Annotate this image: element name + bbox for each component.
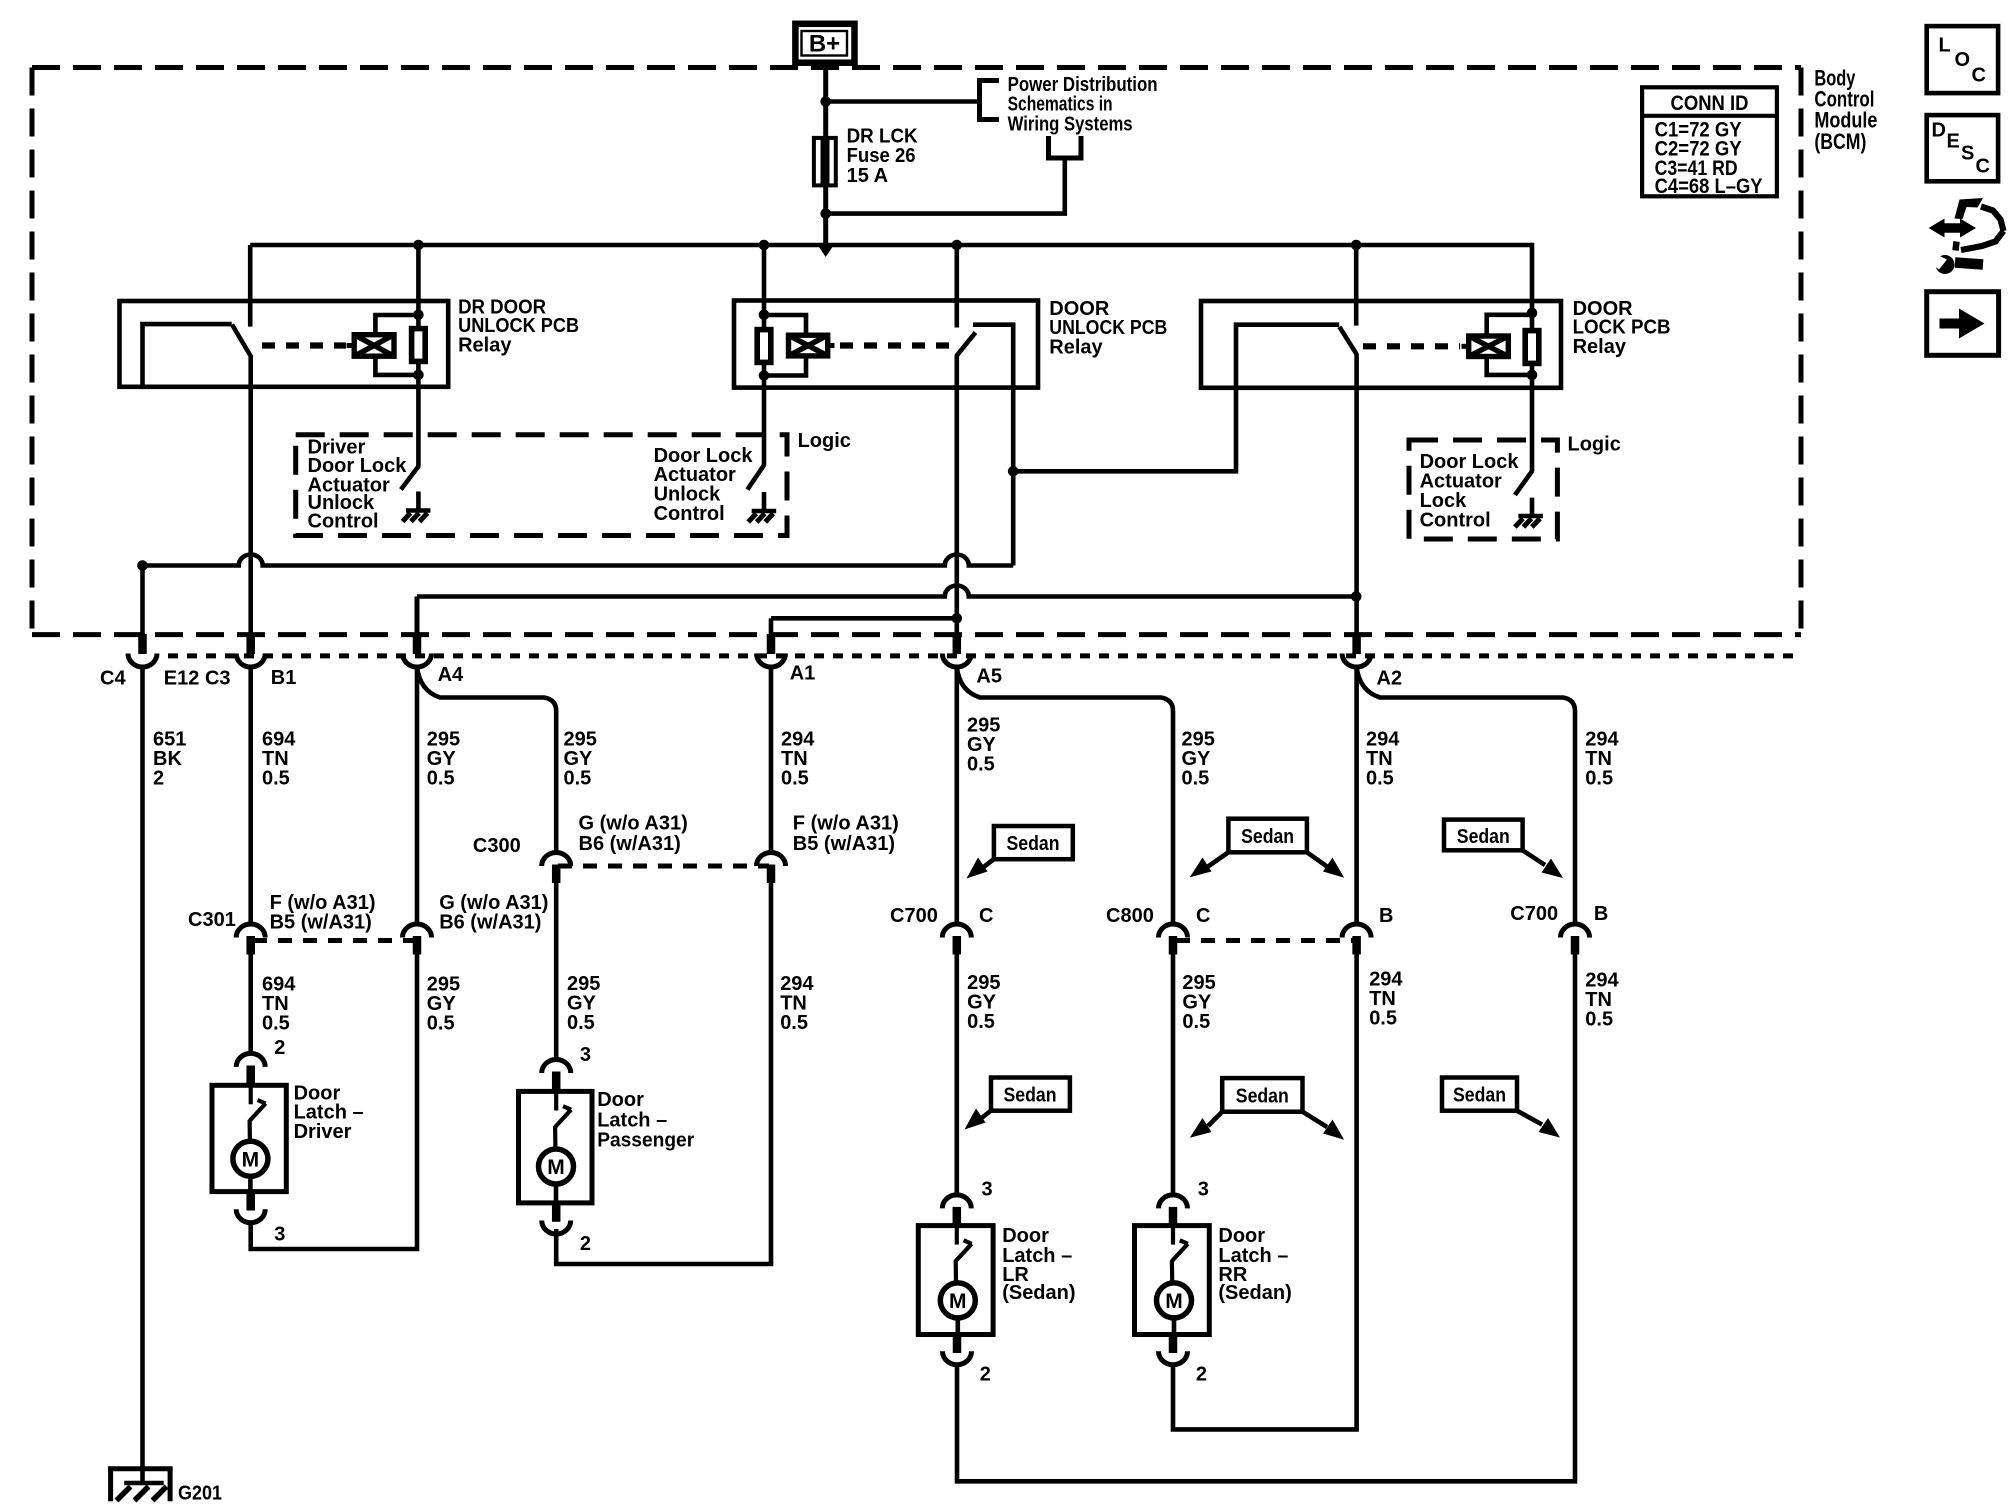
switch blade K3: [1339, 327, 1356, 354]
wire NC hook K3: [1236, 325, 1339, 388]
svg-text:B: B: [1379, 905, 1393, 927]
svg-text:C: C: [1196, 905, 1210, 927]
dashed link C301: [253, 938, 415, 943]
svg-text:Door: Door: [1002, 1225, 1049, 1247]
armature dashed link K2: [840, 342, 950, 348]
label 294 TN 0.5 (lower A1): [780, 973, 814, 1034]
coil K1 (box with X): [347, 335, 394, 357]
connector C301 (B1 side): [236, 924, 265, 955]
svg-text:2: 2: [1196, 1364, 1207, 1386]
svg-text:Sedan: Sedan: [1457, 826, 1510, 848]
node bus-K2 contact: [952, 240, 963, 251]
svg-text:0.5: 0.5: [1369, 1008, 1397, 1030]
wire top B+ bus: [250, 243, 1532, 248]
wire 295 GY from A5 straight: [954, 667, 959, 925]
svg-text:Sedan: Sedan: [1236, 1085, 1289, 1107]
svg-text:M: M: [949, 1290, 967, 1313]
latch box driver: [212, 1085, 286, 1191]
switch inside driver latch: [250, 1085, 266, 1141]
svg-text:Control: Control: [1420, 510, 1491, 532]
wire 694 TN from B1: [248, 667, 253, 925]
svg-text:G201: G201: [178, 1483, 222, 1504]
connector pin 2 LR latch: [943, 1336, 972, 1365]
svg-text:B6 (w/A31): B6 (w/A31): [579, 833, 681, 855]
wire A2 branch to C700-B: [1357, 667, 1575, 925]
svg-text:A2: A2: [1377, 668, 1403, 690]
wire NO contact hook K2: [973, 325, 1013, 388]
svg-text:M: M: [242, 1149, 260, 1172]
svg-text:M: M: [1165, 1290, 1183, 1313]
label Door Latch LR (Sedan): [1002, 1225, 1075, 1304]
svg-text:0.5: 0.5: [780, 1012, 808, 1034]
label 651 BK 2: [153, 728, 186, 789]
label 295 GY 0.5 (RR): [1182, 972, 1215, 1033]
label 694 TN 0.5 (lower): [262, 974, 296, 1035]
wire A4 to A2 link with hop over A5: [417, 586, 1356, 597]
resistor K1: [412, 329, 426, 362]
svg-text:B5 (w/A31): B5 (w/A31): [793, 833, 895, 855]
wire common below blade K3: [1354, 354, 1359, 388]
svg-text:E: E: [1947, 131, 1960, 153]
label fuse: [847, 126, 919, 187]
wire fixed contact from bus K3: [1354, 245, 1359, 326]
BCM dashed border box: [32, 68, 1801, 635]
svg-text:B1: B1: [271, 667, 297, 689]
svg-text:Sedan: Sedan: [1453, 1085, 1506, 1107]
svg-text:Sedan: Sedan: [1007, 833, 1060, 855]
motor M RR: [1157, 1283, 1192, 1318]
motor M passenger: [539, 1149, 574, 1184]
B+ battery box: [795, 24, 854, 63]
connector pin 3 LR latch: [942, 1195, 971, 1225]
wire coil brackets K3: [1487, 315, 1532, 336]
svg-text:0.5: 0.5: [1585, 1009, 1613, 1031]
wire 294 TN from A1: [769, 667, 774, 853]
connector pin 3 driver latch: [236, 1193, 265, 1223]
label 294 TN 0.5 (A1): [781, 728, 815, 789]
label 294 TN 0.5 (C700-B branch): [1585, 728, 1619, 789]
svg-text:2: 2: [274, 1037, 285, 1059]
wire B+ feed down to bus: [823, 63, 828, 245]
wire motor to box bottom: [955, 1318, 960, 1335]
svg-text:DR LCK: DR LCK: [847, 126, 919, 148]
icon LOC box: [1927, 26, 1998, 93]
svg-text:B: B: [1594, 903, 1608, 925]
label 295 GY 0.5 (lower A4): [427, 974, 460, 1035]
label door lock actuator lock control: [1420, 451, 1520, 532]
svg-text:C700: C700: [1510, 903, 1558, 925]
ground logic switch 3: [1515, 498, 1543, 527]
connector A2 pin: [1342, 388, 1371, 667]
node junction C4 bus: [137, 560, 148, 571]
connector pin 2 passenger latch: [542, 1204, 571, 1234]
label 295 GY 0.5 (A4): [427, 728, 460, 789]
svg-text:B5 (w/A31): B5 (w/A31): [270, 912, 372, 934]
svg-text:L: L: [1939, 35, 1951, 57]
wire motor to box bottom: [1172, 1318, 1177, 1335]
wire branch to power distribution reference: [826, 99, 980, 104]
armature dashed link K1: [262, 342, 346, 348]
label G (w/o A31) B6 (w/A31): [439, 892, 548, 933]
svg-text:Door: Door: [1218, 1225, 1265, 1247]
fuse F26 DR LCK: [814, 138, 836, 186]
label DOOR LOCK PCB Relay: [1573, 298, 1671, 358]
node bus-K1 coil: [413, 240, 424, 251]
wire fixed contact from bus: [248, 245, 253, 327]
label Door Latch Passenger: [597, 1089, 694, 1151]
svg-text:C800: C800: [1106, 905, 1154, 927]
svg-text:G (w/o A31): G (w/o A31): [579, 813, 688, 835]
connector C301 mate (A4 side): [403, 924, 432, 955]
wire 294 TN from A2 straight: [1354, 667, 1359, 925]
wire coil parallel brackets K1: [375, 315, 418, 335]
wire below C300 (295 GY): [554, 883, 559, 1061]
svg-text:Sedan: Sedan: [1241, 826, 1294, 848]
label driver door lock actuator unlock control: [308, 436, 408, 532]
relay box DOOR UNLOCK PCB: [734, 301, 1038, 388]
svg-text:CONN ID: CONN ID: [1671, 92, 1749, 115]
connector A1 pin: [757, 618, 786, 667]
svg-text:C4: C4: [100, 668, 126, 690]
wire below C800-C to RR latch: [1171, 955, 1176, 1197]
wire K2 coil to logic switch: [762, 388, 767, 465]
label 294 TN 0.5 (RR return): [1369, 969, 1403, 1030]
wire ground bus (C4 net) with hops: [143, 555, 1014, 566]
svg-text:Latch –: Latch –: [597, 1109, 667, 1131]
wire motor to box bottom: [248, 1176, 253, 1191]
svg-text:Driver: Driver: [294, 1121, 352, 1143]
resistor K3: [1525, 331, 1539, 364]
svg-text:0.5: 0.5: [427, 767, 455, 789]
icon double arrow with hook and wrench: [1927, 198, 2004, 274]
svg-text:Door: Door: [597, 1089, 644, 1111]
connector A4 pin: [403, 597, 432, 668]
node coil K3 bottom: [1527, 370, 1538, 381]
junction arrow fuse to bus: [819, 247, 833, 258]
svg-text:C300: C300: [473, 835, 521, 857]
label power distribution: [1008, 74, 1158, 135]
svg-text:0.5: 0.5: [1182, 1011, 1210, 1033]
node coil K1 top: [413, 310, 424, 321]
svg-text:Control: Control: [308, 510, 379, 532]
label 294 TN 0.5 (A2): [1366, 728, 1400, 789]
logic switch blade (lock control): [1515, 471, 1532, 495]
sedan box S3: [1444, 820, 1563, 878]
sedan box S1: [967, 826, 1073, 879]
svg-text:3: 3: [1198, 1178, 1209, 1200]
icon DESC box: [1927, 115, 1998, 181]
svg-text:15 A: 15 A: [847, 165, 889, 187]
relay box DOOR LOCK PCB: [1201, 301, 1561, 388]
wire A1 to A5 link: [771, 616, 957, 621]
svg-text:Relay: Relay: [1049, 336, 1103, 358]
latch box RR: [1135, 1226, 1210, 1335]
dashed link C300: [558, 864, 769, 869]
ground symbol G201: [108, 1467, 173, 1502]
sedan box S4: [965, 1078, 1070, 1130]
svg-text:C700: C700: [890, 905, 938, 927]
connector C300 mate (A1 side): [757, 853, 786, 884]
switch blade K2: [957, 333, 976, 356]
node junction below fuse: [820, 208, 831, 219]
label G (w/o A31) B6 (w/A31) at C300: [579, 813, 688, 855]
sedan box S5: [1190, 1078, 1344, 1140]
wire A4 branch to C300: [417, 667, 556, 852]
svg-text:Wiring Systems: Wiring Systems: [1008, 113, 1133, 135]
wire NC contact hook: [143, 324, 232, 387]
wire 295 GY from A4 straight: [415, 667, 420, 925]
svg-text:0.5: 0.5: [567, 1012, 595, 1034]
node coil K3 top: [1527, 308, 1538, 319]
sedan box S6: [1442, 1078, 1560, 1138]
wire A5 branch to C800: [957, 667, 1173, 925]
label 294 TN 0.5 (LR return): [1585, 970, 1619, 1031]
label F (w/o A31) B5 (w/A31): [270, 892, 376, 933]
svg-text:Passenger: Passenger: [597, 1129, 694, 1151]
motor M LR: [940, 1283, 975, 1318]
connector pin 2 RR latch: [1159, 1336, 1188, 1365]
node coil K2 bottom: [759, 370, 770, 381]
svg-text:Logic: Logic: [798, 430, 851, 452]
wire K2 NO contact riser with junction: [1011, 388, 1016, 566]
connector C700 pin B: [1561, 924, 1590, 955]
sedan box S2: [1190, 819, 1344, 878]
wire coil feed from bus: [416, 245, 421, 330]
svg-text:O: O: [1955, 49, 1971, 71]
logic dashed box right (lock control): [1409, 440, 1557, 539]
svg-text:(Sedan): (Sedan): [1218, 1282, 1291, 1304]
wire fixed contact from bus K2: [954, 245, 959, 328]
logic switch blade (unlock control): [747, 465, 764, 490]
wire below C301 (694 TN): [248, 955, 253, 1056]
svg-text:2: 2: [153, 767, 164, 789]
wire below A1 connector down to passenger latch return: [556, 883, 771, 1264]
coil K2 (box with X): [789, 335, 835, 356]
label 295 GY 0.5 (C800 branch): [1182, 728, 1215, 789]
svg-text:0.5: 0.5: [967, 1011, 995, 1033]
connector C800 pin C: [1159, 924, 1188, 955]
connector pin 3 RR latch: [1159, 1195, 1188, 1225]
wire below C700-B LR return: [957, 955, 1575, 1482]
node junction riser: [1008, 466, 1019, 477]
svg-text:(BCM): (BCM): [1814, 129, 1866, 154]
wire below C800-B RR return: [1173, 955, 1357, 1430]
label DOOR UNLOCK PCB Relay: [1049, 298, 1167, 358]
wire resistor bottom to box exit: [416, 361, 421, 387]
wire resistor bottom K2: [762, 362, 767, 388]
switch inside LR latch: [956, 1226, 972, 1282]
label 295 GY 0.5 (A5): [967, 714, 1000, 775]
off-page bracket power distribution: [977, 79, 999, 122]
svg-text:0.5: 0.5: [427, 1013, 455, 1035]
svg-text:B+: B+: [809, 31, 840, 58]
wire link K2 NO to K3 NC: [1013, 388, 1236, 472]
label 295 GY 0.5 (LR): [967, 972, 1000, 1033]
wire 651 BK to ground: [140, 667, 145, 1468]
label DR DOOR UNLOCK PCB Relay: [458, 297, 579, 357]
logic dashed box left (driver unlock + unlock control): [296, 435, 787, 536]
svg-text:0.5: 0.5: [262, 767, 290, 789]
wire coil feed K2: [762, 245, 767, 330]
icon right arrow box: [1927, 292, 1999, 356]
svg-text:0.5: 0.5: [262, 1013, 290, 1035]
svg-text:A5: A5: [976, 666, 1002, 688]
connector C4 pin: [128, 566, 157, 668]
node bus-K2 coil: [759, 240, 770, 251]
svg-text:A4: A4: [438, 664, 464, 686]
svg-text:C: C: [1972, 64, 1986, 86]
svg-text:Schematics in: Schematics in: [1008, 94, 1113, 116]
coil K3 (box with X): [1462, 336, 1509, 357]
switch inside RR latch: [1172, 1226, 1188, 1282]
connector A5 pin: [942, 388, 971, 667]
svg-text:Power Distribution: Power Distribution: [1008, 74, 1158, 96]
armature dashed link K3: [1363, 343, 1460, 349]
wire K1 coil to logic switch: [416, 387, 421, 467]
node junction on A2 wire: [1351, 591, 1362, 602]
motor M driver: [233, 1141, 268, 1176]
svg-text:2: 2: [580, 1233, 591, 1255]
wire K3 coil to logic switch: [1530, 388, 1535, 472]
svg-text:0.5: 0.5: [1366, 767, 1394, 789]
label Door Latch Driver: [294, 1082, 364, 1143]
svg-text:Logic: Logic: [1568, 434, 1621, 456]
svg-text:C: C: [979, 905, 993, 927]
svg-text:0.5: 0.5: [1182, 767, 1210, 789]
wire resistor bottom K3: [1530, 363, 1535, 388]
switch inside passenger latch: [555, 1091, 571, 1148]
svg-text:Relay: Relay: [1573, 336, 1627, 358]
node coil K1 bottom: [413, 370, 424, 381]
svg-text:3: 3: [982, 1178, 993, 1200]
off-page bracket return (U shape): [1046, 136, 1084, 158]
wire below C700-C to LR latch: [954, 955, 959, 1197]
svg-text:(Sedan): (Sedan): [1002, 1282, 1075, 1304]
svg-text:0.5: 0.5: [967, 753, 995, 775]
node bus-K3 contact: [1351, 240, 1362, 251]
wire below C301 mate down to driver latch return: [251, 955, 417, 1250]
svg-text:F (w/o A31): F (w/o A31): [793, 813, 899, 835]
dashed link C800: [1176, 938, 1354, 943]
node junction on A5 wire: [952, 613, 963, 624]
label door lock actuator unlock control: [654, 445, 754, 525]
svg-text:D: D: [1932, 119, 1946, 141]
svg-text:E12 C3: E12 C3: [164, 668, 231, 690]
label 694 TN 0.5 (upper): [262, 728, 296, 789]
svg-text:C4=68 L–GY: C4=68 L–GY: [1655, 175, 1763, 198]
svg-text:C: C: [1976, 155, 1990, 177]
wire coil brackets K2: [764, 315, 806, 335]
connector pin 2 driver latch: [236, 1053, 265, 1084]
connector pin 3 passenger latch: [542, 1060, 571, 1091]
connector C300: [542, 853, 571, 884]
connector B1 pin: [236, 387, 265, 667]
svg-text:B6 (w/A31): B6 (w/A31): [439, 912, 541, 934]
resistor K2: [757, 330, 771, 363]
wire motor to box bottom: [554, 1184, 559, 1203]
dotted in-line connector face: [168, 653, 1795, 658]
svg-text:Fuse 26: Fuse 26: [847, 145, 916, 167]
svg-text:Sedan: Sedan: [1004, 1085, 1057, 1107]
svg-text:M: M: [547, 1156, 565, 1179]
svg-text:S: S: [1961, 142, 1974, 164]
svg-text:0.5: 0.5: [564, 767, 592, 789]
node junction on B+ wire: [820, 96, 831, 107]
label 295 GY 0.5 (C300 branch): [564, 728, 597, 789]
latch box LR: [918, 1226, 993, 1335]
svg-text:0.5: 0.5: [781, 767, 809, 789]
label Body Control Module (BCM): [1814, 65, 1877, 154]
wire from U bracket to fuse output: [826, 158, 1065, 214]
svg-text:Relay: Relay: [458, 334, 512, 356]
conn id table: [1642, 87, 1777, 198]
wire bus corner to coil K3: [1530, 245, 1532, 330]
relay box DR DOOR UNLOCK PCB: [120, 301, 449, 387]
svg-text:0.5: 0.5: [1585, 767, 1613, 789]
wire common below blade K2: [954, 355, 959, 389]
svg-text:3: 3: [580, 1044, 591, 1066]
ground logic switch 1: [403, 492, 431, 522]
connector C800 pin B: [1342, 924, 1371, 955]
svg-text:3: 3: [274, 1224, 285, 1246]
svg-text:Control: Control: [654, 503, 725, 525]
label F (w/o A31) B5 (w/A31) at A1: [793, 813, 899, 855]
svg-text:A1: A1: [790, 663, 816, 685]
ground logic switch 2: [748, 492, 776, 522]
node coil K2 top: [759, 310, 770, 321]
wire common below blade: [248, 357, 253, 387]
connector C700 pin C: [942, 924, 971, 955]
label Door Latch RR (Sedan): [1218, 1225, 1291, 1304]
latch box passenger: [519, 1091, 593, 1203]
logic switch blade (driver unlock): [401, 466, 419, 490]
svg-text:C301: C301: [188, 909, 236, 931]
label 295 GY 0.5 (lower C300): [567, 973, 600, 1034]
svg-text:2: 2: [980, 1364, 991, 1386]
switch blade K1: [232, 325, 252, 358]
